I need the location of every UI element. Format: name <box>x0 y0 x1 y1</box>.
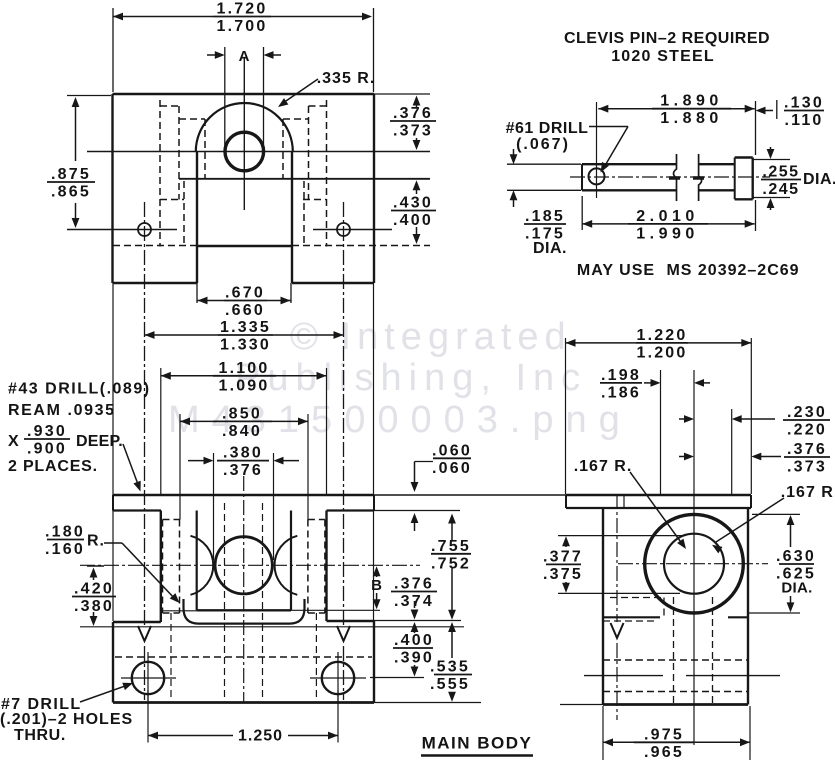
svg-text:2.010: 2.010 <box>636 208 699 225</box>
svg-text:CLEVIS PIN–2 REQUIRED: CLEVIS PIN–2 REQUIRED <box>564 30 770 47</box>
svg-text:.390: .390 <box>394 650 434 667</box>
svg-text:.376: .376 <box>787 441 827 458</box>
svg-text:1.990: 1.990 <box>636 225 699 242</box>
svg-text:THRU.: THRU. <box>14 727 66 744</box>
svg-text:.380: .380 <box>223 445 263 462</box>
svg-text:.377: .377 <box>543 548 583 565</box>
svg-text:A: A <box>239 48 251 65</box>
svg-text:.375: .375 <box>543 566 583 583</box>
svg-text:R.: R. <box>87 533 105 550</box>
svg-text:.900: .900 <box>27 441 67 458</box>
svg-text:.555: .555 <box>430 676 470 693</box>
svg-text:#61 DRILL: #61 DRILL <box>506 120 589 137</box>
svg-text:.376: .376 <box>223 462 263 479</box>
svg-text:.965: .965 <box>644 744 684 760</box>
svg-text:.185: .185 <box>525 208 565 225</box>
svg-text:(.067): (.067) <box>516 136 570 153</box>
svg-text:.630: .630 <box>776 548 816 565</box>
svg-text:Publishing, Inc: Publishing, Inc <box>235 357 587 399</box>
svg-text:1.700: 1.700 <box>216 18 267 35</box>
svg-text:1.880: 1.880 <box>660 110 723 127</box>
svg-text:1.330: 1.330 <box>220 337 271 354</box>
svg-text:MAIN BODY: MAIN BODY <box>422 734 533 753</box>
svg-text:.400: .400 <box>393 212 433 229</box>
svg-text:.373: .373 <box>393 123 433 140</box>
svg-text:DEEP.: DEEP. <box>76 433 123 450</box>
svg-text:.535: .535 <box>430 659 470 676</box>
svg-text:1.335: 1.335 <box>220 319 271 336</box>
svg-text:.376: .376 <box>393 105 433 122</box>
svg-text:MS 20392–2C69: MS 20392–2C69 <box>666 262 799 279</box>
svg-text:1.220: 1.220 <box>636 327 687 344</box>
svg-text:1020 STEEL: 1020 STEEL <box>611 48 715 65</box>
svg-text:.220: .220 <box>787 422 827 439</box>
svg-text:DIA.: DIA. <box>803 171 835 188</box>
svg-text:DIA.: DIA. <box>781 580 812 597</box>
svg-text:.230: .230 <box>787 404 827 421</box>
svg-text:.198: .198 <box>601 367 641 384</box>
svg-text:.167 R.: .167 R. <box>574 458 633 475</box>
svg-text:.420: .420 <box>74 581 114 598</box>
svg-text:.850: .850 <box>222 405 262 422</box>
svg-text:.840: .840 <box>222 423 262 440</box>
svg-text:.110: .110 <box>784 112 823 129</box>
svg-text:.255: .255 <box>762 164 799 181</box>
svg-text:.180: .180 <box>45 524 85 541</box>
svg-text:.186: .186 <box>601 384 641 401</box>
svg-text:.975: .975 <box>644 726 684 743</box>
svg-text:MAY USE: MAY USE <box>577 262 655 279</box>
svg-text:.875: .875 <box>51 166 91 183</box>
svg-text:.335 R.: .335 R. <box>317 70 376 87</box>
svg-text:DIA.: DIA. <box>533 240 567 257</box>
svg-text:1.250: 1.250 <box>238 728 283 745</box>
svg-text:.060: .060 <box>432 460 472 477</box>
svg-text:.373: .373 <box>787 459 827 476</box>
svg-text:.752: .752 <box>431 555 471 572</box>
svg-text:REAM .0935: REAM .0935 <box>8 402 116 419</box>
svg-text:1.720: 1.720 <box>216 1 267 18</box>
svg-text:.400: .400 <box>394 632 434 649</box>
svg-text:.430: .430 <box>393 195 433 212</box>
svg-text:.376: .376 <box>394 576 434 593</box>
svg-text:.660: .660 <box>225 302 265 319</box>
svg-text:1.100: 1.100 <box>218 360 269 377</box>
svg-text:.755: .755 <box>431 538 471 555</box>
svg-text:1.090: 1.090 <box>218 377 269 394</box>
svg-text:.670: .670 <box>225 285 265 302</box>
svg-text:X: X <box>8 433 20 450</box>
svg-text:.865: .865 <box>51 184 91 201</box>
svg-text:.930: .930 <box>27 423 67 440</box>
svg-text:.060: .060 <box>432 442 472 459</box>
svg-text:#43 DRILL(.089): #43 DRILL(.089) <box>8 381 151 398</box>
svg-text:.167 R.: .167 R. <box>781 484 835 501</box>
svg-text:.245: .245 <box>762 181 799 198</box>
svg-text:B: B <box>371 577 383 594</box>
svg-text:.130: .130 <box>784 95 824 112</box>
svg-text:1.890: 1.890 <box>660 93 723 110</box>
svg-text:(.201)–2 HOLES: (.201)–2 HOLES <box>0 711 133 728</box>
svg-text:© Integrated: © Integrated <box>290 316 572 358</box>
svg-text:1.200: 1.200 <box>636 344 687 361</box>
svg-text:2 PLACES.: 2 PLACES. <box>8 458 98 475</box>
svg-text:.160: .160 <box>45 541 85 558</box>
